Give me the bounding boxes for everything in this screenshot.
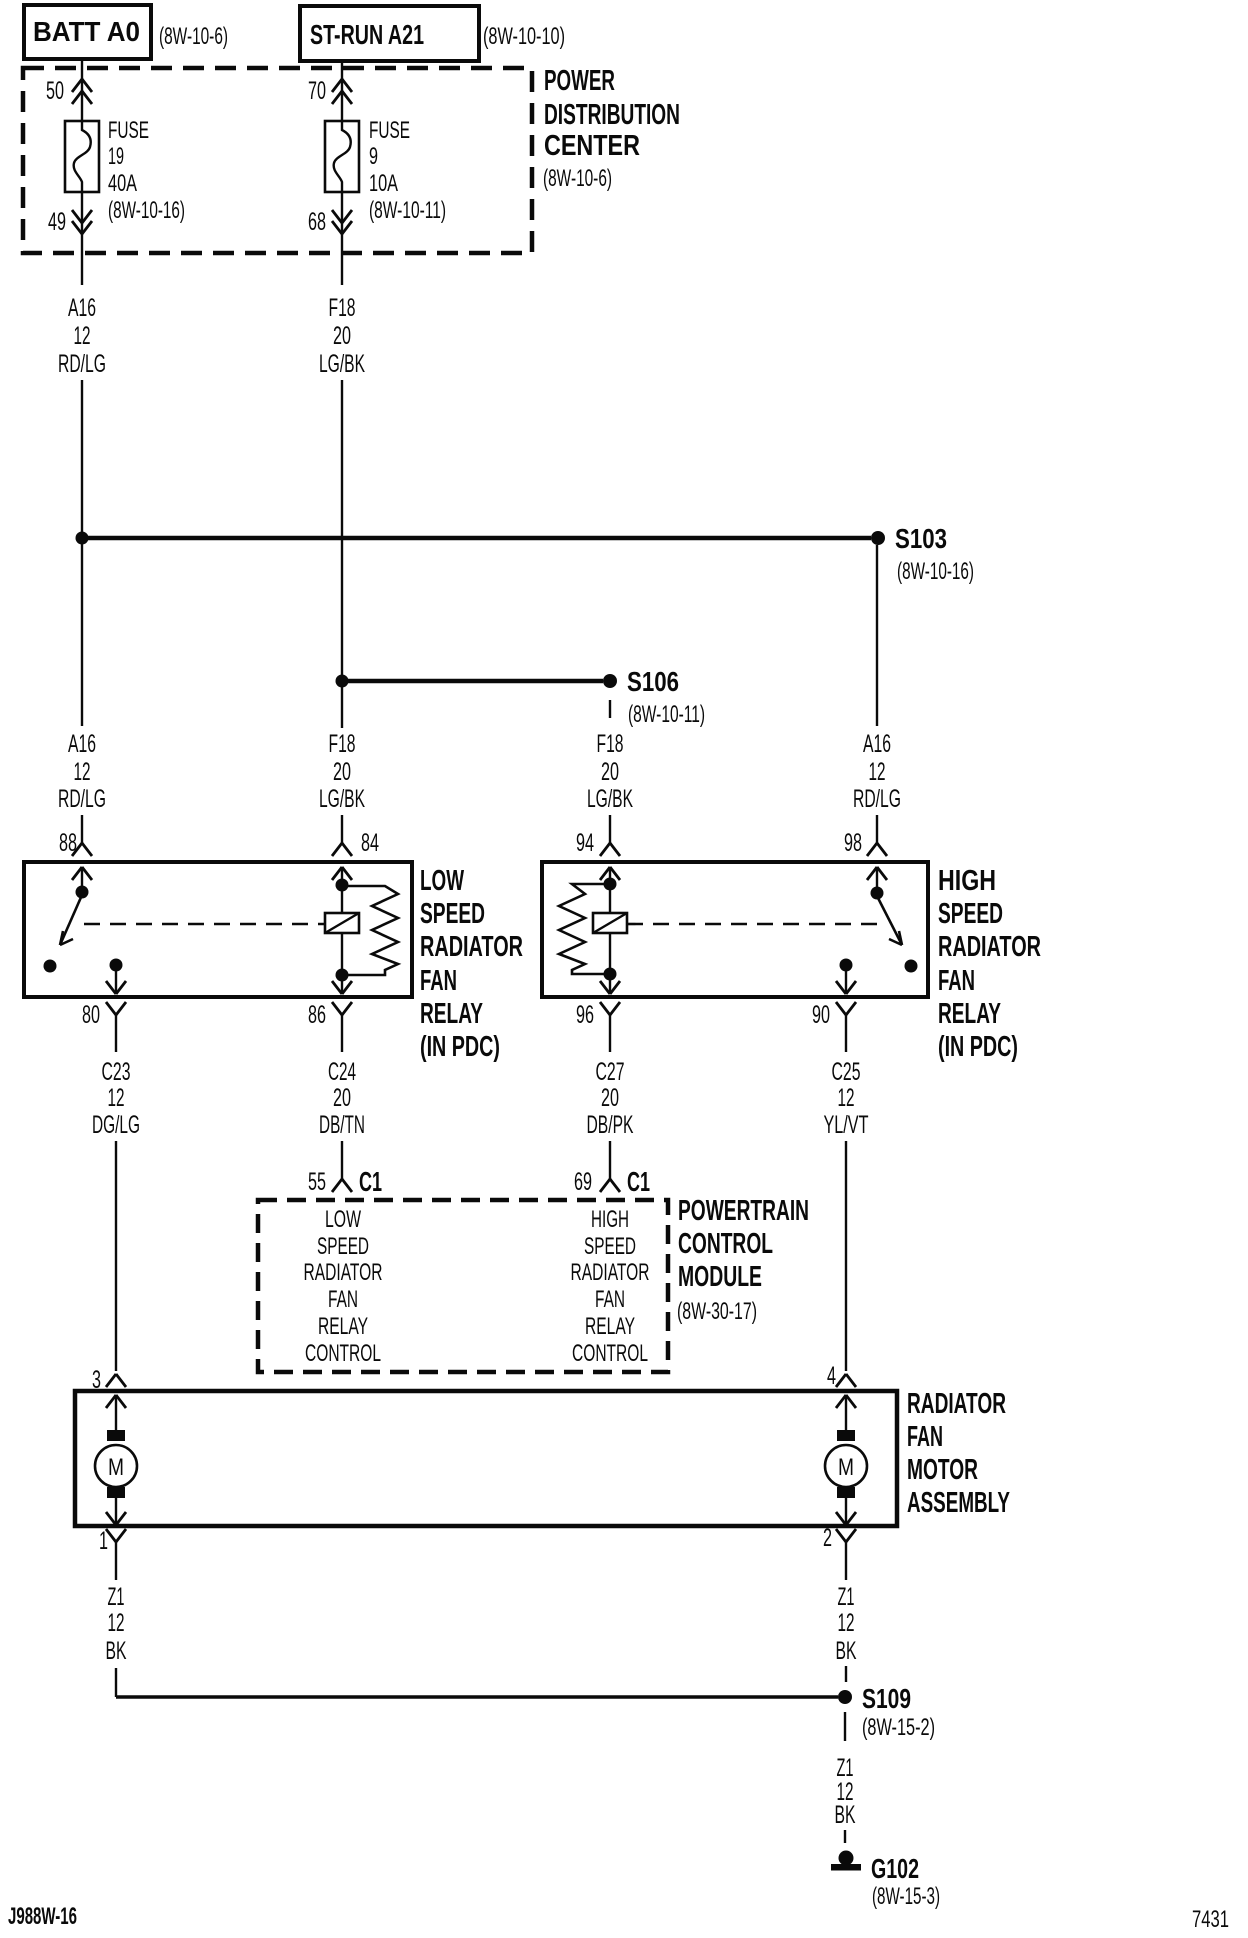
svg-text:RADIATOR: RADIATOR: [571, 1259, 650, 1286]
left fan motor M1: [95, 1430, 137, 1525]
svg-text:A16: A16: [863, 730, 891, 758]
svg-text:40A: 40A: [108, 170, 137, 197]
svg-text:LOW: LOW: [325, 1206, 361, 1233]
svg-text:3: 3: [92, 1366, 101, 1394]
fuse 19 labels: [108, 117, 185, 224]
svg-text:10A: 10A: [369, 170, 398, 197]
low relay resistor: [342, 886, 398, 975]
high relay resistor: [559, 884, 610, 974]
pin 3 connector: [92, 1366, 126, 1430]
svg-text:88: 88: [59, 829, 77, 857]
svg-text:20: 20: [601, 1084, 619, 1112]
svg-text:98: 98: [844, 829, 862, 857]
svg-text:CONTROL: CONTROL: [572, 1340, 648, 1367]
wire label Z1 12 BK left: [106, 1583, 127, 1665]
wire F18 to S106: [341, 380, 343, 681]
svg-text:S106: S106: [627, 666, 679, 697]
wire label A16 12 RD/LG upper: [58, 294, 106, 378]
svg-text:CONTROL: CONTROL: [678, 1228, 773, 1260]
pin 94 connector: [576, 829, 620, 884]
svg-text:F18: F18: [329, 730, 356, 758]
svg-text:96: 96: [576, 1001, 594, 1029]
svg-text:C27: C27: [596, 1058, 625, 1086]
fuse 19 symbol: [65, 121, 99, 192]
wire F18 upper segment: [341, 253, 343, 285]
pin 1 connector: [99, 1527, 126, 1580]
svg-text:50: 50: [46, 77, 64, 105]
svg-text:SPEED: SPEED: [938, 898, 1003, 930]
svg-text:12: 12: [108, 1609, 125, 1637]
wire C23 down to fan pin 3: [115, 1141, 117, 1371]
connector box BATT A0: [24, 5, 151, 59]
svg-text:(8W-10-11): (8W-10-11): [369, 197, 446, 224]
svg-text:C23: C23: [102, 1058, 131, 1086]
svg-text:LG/BK: LG/BK: [319, 785, 365, 813]
svg-text:12: 12: [74, 758, 91, 786]
svg-text:FAN: FAN: [938, 965, 975, 997]
power distribution center dashed box: [23, 68, 532, 253]
reference (8W-10-10) for ST-RUN A21: [483, 23, 565, 50]
svg-text:DISTRIBUTION: DISTRIBUTION: [544, 99, 680, 131]
svg-text:70: 70: [308, 77, 326, 105]
svg-text:DG/LG: DG/LG: [92, 1111, 140, 1139]
splice S106 dot: [603, 674, 617, 688]
low relay control dashed line: [84, 923, 325, 926]
svg-text:FUSE: FUSE: [369, 117, 410, 144]
fuse 9 symbol: [325, 121, 359, 192]
svg-text:M: M: [838, 1454, 854, 1481]
svg-text:20: 20: [333, 322, 351, 350]
pin 69 C1 connector: [574, 1166, 650, 1197]
wire F18 into pin 94: [609, 815, 611, 843]
wire A16 from S103 down: [876, 545, 878, 726]
svg-text:2: 2: [823, 1524, 832, 1552]
connector box ST-RUN A21: [300, 6, 479, 61]
pin 86 connector: [308, 1001, 352, 1052]
ground G102 label: [871, 1853, 940, 1910]
svg-text:RELAY: RELAY: [318, 1313, 368, 1340]
svg-text:12: 12: [869, 758, 886, 786]
wire fuse 9 to PDC border: [341, 192, 343, 253]
svg-text:POWER: POWER: [544, 65, 615, 97]
svg-text:(8W-10-6): (8W-10-6): [159, 23, 228, 50]
svg-text:DB/TN: DB/TN: [319, 1111, 365, 1139]
svg-text:55: 55: [308, 1168, 326, 1196]
svg-text:(8W-10-16): (8W-10-16): [108, 197, 185, 224]
fuse 9 labels: [369, 117, 446, 224]
svg-text:RADIATOR: RADIATOR: [938, 931, 1041, 963]
pin 80 connector: [82, 1001, 126, 1052]
wire A16 lower left segment: [81, 538, 83, 726]
svg-text:LG/BK: LG/BK: [319, 350, 365, 378]
wire A16 into pin 98: [876, 815, 878, 843]
svg-text:RADIATOR: RADIATOR: [907, 1388, 1006, 1420]
wire label F18 20 LG/BK upper: [319, 294, 365, 378]
wire C25 down to fan pin 4: [845, 1141, 847, 1371]
svg-text:FAN: FAN: [328, 1286, 358, 1313]
svg-text:C25: C25: [832, 1058, 861, 1086]
wire Z1 left down segment: [115, 1668, 117, 1697]
svg-text:FUSE: FUSE: [108, 117, 149, 144]
pin 49 double chevron: [48, 208, 92, 236]
pin 98 connector: [844, 829, 887, 889]
pin 55 C1 connector: [308, 1166, 382, 1197]
high relay fixed contact dot: [905, 960, 918, 973]
powertrain control module dashed box: [258, 1200, 668, 1372]
svg-text:CENTER: CENTER: [544, 130, 640, 162]
wire C27 down to PCM pin 69: [609, 1141, 611, 1179]
svg-text:9: 9: [369, 143, 378, 170]
svg-text:ASSEMBLY: ASSEMBLY: [907, 1487, 1010, 1519]
svg-text:FAN: FAN: [595, 1286, 625, 1313]
pin 96 connector: [576, 1001, 620, 1052]
pin 80 contact dot and stem: [106, 959, 126, 995]
svg-text:CONTROL: CONTROL: [305, 1340, 381, 1367]
svg-text:HIGH: HIGH: [591, 1206, 629, 1233]
svg-text:BK: BK: [106, 1637, 127, 1665]
splice S103 bus line: [82, 536, 871, 541]
svg-text:69: 69: [574, 1168, 592, 1196]
svg-text:49: 49: [48, 208, 66, 236]
splice S106 label: [627, 666, 705, 728]
reference (8W-10-6) for BATT A0: [159, 23, 228, 50]
wire label C27 20 DB/PK: [587, 1058, 634, 1139]
svg-text:86: 86: [308, 1001, 326, 1029]
wire label C23 12 DG/LG: [92, 1058, 140, 1139]
svg-text:90: 90: [812, 1001, 830, 1029]
svg-text:S109: S109: [862, 1683, 911, 1714]
low relay fixed contact dot: [44, 960, 57, 973]
high relay control dashed line: [627, 923, 886, 926]
pin 70 double chevron: [308, 77, 352, 105]
low relay switch common dot: [76, 886, 89, 899]
svg-text:SPEED: SPEED: [317, 1233, 369, 1260]
svg-text:LOW: LOW: [420, 865, 464, 897]
svg-text:68: 68: [308, 208, 326, 236]
high speed radiator fan relay box: [542, 862, 928, 997]
low relay coil: [325, 885, 359, 975]
svg-text:A16: A16: [68, 294, 96, 322]
wire stub above ground G102: [844, 1830, 846, 1843]
splice S103 label: [895, 523, 974, 585]
splice S109 dot: [838, 1690, 852, 1704]
svg-text:S103: S103: [895, 523, 947, 554]
svg-text:(8W-10-10): (8W-10-10): [483, 23, 565, 50]
wire label F18 20 LG/BK to pin 84: [319, 730, 365, 813]
svg-text:4: 4: [827, 1362, 836, 1390]
splice S109 label: [862, 1683, 935, 1741]
pin 90 connector: [812, 1001, 856, 1052]
wire Z1 right stub above S109: [845, 1666, 847, 1682]
ground symbol G102: [831, 1851, 861, 1871]
high relay switch common dot: [871, 887, 884, 900]
svg-text:84: 84: [361, 829, 379, 857]
wire C24 down to PCM pin 55: [341, 1141, 343, 1179]
splice S103 dot: [871, 531, 885, 545]
svg-text:POWERTRAIN: POWERTRAIN: [678, 1195, 809, 1227]
svg-text:19: 19: [108, 143, 124, 170]
svg-text:12: 12: [838, 1609, 855, 1637]
svg-text:SPEED: SPEED: [420, 898, 485, 930]
wire stub below S109: [844, 1712, 846, 1741]
wire fuse 19 to PDC border: [81, 192, 83, 253]
pin 96 stem: [600, 974, 620, 994]
wire F18 into pin 84: [341, 815, 343, 843]
pin 90 contact dot and stem: [836, 959, 856, 995]
pin 2 connector: [823, 1524, 856, 1580]
pin 88 connector: [59, 829, 92, 888]
svg-text:20: 20: [333, 1084, 351, 1112]
svg-text:C24: C24: [328, 1058, 356, 1086]
svg-text:BATT A0: BATT A0: [33, 16, 140, 47]
wire label C24 20 DB/TN: [319, 1058, 365, 1139]
svg-text:DB/PK: DB/PK: [587, 1111, 634, 1139]
svg-text:HIGH: HIGH: [938, 865, 996, 897]
high relay coil: [593, 884, 627, 974]
svg-text:Z1: Z1: [108, 1583, 125, 1611]
svg-text:(8W-10-6): (8W-10-6): [543, 165, 612, 192]
svg-text:F18: F18: [597, 730, 624, 758]
wire A16 to S103: [81, 380, 83, 537]
high relay coil bottom dot: [604, 968, 617, 981]
junction dot on wire F18 at S106: [336, 675, 349, 688]
low relay coil bottom dot: [336, 969, 349, 982]
svg-text:M: M: [108, 1454, 124, 1481]
svg-text:MODULE: MODULE: [678, 1261, 762, 1293]
svg-text:(8W-10-11): (8W-10-11): [628, 701, 705, 728]
radiator fan motor assembly label: [907, 1388, 1010, 1519]
svg-text:FAN: FAN: [907, 1421, 943, 1453]
svg-text:(8W-10-16): (8W-10-16): [897, 558, 974, 585]
svg-text:RELAY: RELAY: [585, 1313, 635, 1340]
svg-text:LG/BK: LG/BK: [587, 785, 633, 813]
svg-text:(8W-15-3): (8W-15-3): [872, 1883, 940, 1910]
wire label A16 12 RD/LG to pin 98: [853, 730, 901, 813]
svg-text:RD/LG: RD/LG: [58, 350, 106, 378]
svg-text:12: 12: [74, 322, 91, 350]
svg-text:F18: F18: [329, 294, 356, 322]
svg-text:SPEED: SPEED: [584, 1233, 636, 1260]
svg-text:J988W-16: J988W-16: [8, 1903, 77, 1930]
splice S106 bus line: [342, 679, 603, 684]
pin 68 double chevron: [308, 208, 352, 236]
PCM high speed relay control text: [571, 1206, 650, 1367]
right fan motor M2: [825, 1430, 867, 1525]
radiator fan motor assembly box: [75, 1391, 897, 1526]
svg-text:BK: BK: [836, 1637, 857, 1665]
svg-text:12: 12: [108, 1084, 125, 1112]
svg-text:A16: A16: [68, 730, 96, 758]
svg-text:Z1: Z1: [838, 1583, 855, 1611]
svg-text:(IN PDC): (IN PDC): [938, 1031, 1018, 1063]
svg-text:RADIATOR: RADIATOR: [304, 1259, 383, 1286]
svg-text:(IN PDC): (IN PDC): [420, 1031, 500, 1063]
svg-text:G102: G102: [871, 1853, 919, 1884]
footer sheet number J988W-16: [8, 1903, 77, 1930]
wire label Z1 12 BK to ground: [835, 1754, 856, 1829]
wire label C25 12 YL/VT: [824, 1058, 869, 1139]
svg-text:80: 80: [82, 1001, 100, 1029]
svg-text:MOTOR: MOTOR: [907, 1454, 978, 1486]
wire label A16 12 RD/LG to pin 88: [58, 730, 106, 813]
high relay coil top dot: [604, 878, 617, 891]
high speed radiator fan relay label: [938, 865, 1041, 1063]
svg-text:FAN: FAN: [420, 965, 457, 997]
svg-text:12: 12: [838, 1084, 855, 1112]
svg-text:C1: C1: [359, 1166, 382, 1197]
svg-text:RD/LG: RD/LG: [58, 785, 106, 813]
wire stub below S106 dot: [609, 700, 611, 718]
footer page number 7431: [1192, 1906, 1229, 1933]
svg-text:BK: BK: [835, 1801, 856, 1829]
svg-text:20: 20: [601, 758, 619, 786]
low speed radiator fan relay label: [420, 865, 523, 1063]
svg-text:RADIATOR: RADIATOR: [420, 931, 523, 963]
pin 84 connector: [332, 829, 379, 885]
wire label Z1 12 BK right: [836, 1583, 857, 1665]
junction dot on wire A16 at S103: [76, 532, 89, 545]
svg-text:RELAY: RELAY: [938, 998, 1001, 1030]
wire from BATT A0 into PDC: [81, 59, 83, 121]
svg-text:YL/VT: YL/VT: [824, 1111, 869, 1139]
svg-text:ST-RUN A21: ST-RUN A21: [310, 19, 424, 50]
wire F18 below S106 junction: [341, 681, 343, 728]
svg-text:(8W-30-17): (8W-30-17): [677, 1298, 757, 1325]
svg-text:RD/LG: RD/LG: [853, 785, 901, 813]
svg-text:RELAY: RELAY: [420, 998, 483, 1030]
low relay switch blade: [60, 895, 82, 945]
pin 4 connector: [827, 1362, 856, 1430]
high relay switch blade: [877, 896, 902, 945]
powertrain control module label: [677, 1195, 809, 1325]
power distribution center label: [543, 65, 680, 192]
low relay coil top dot: [336, 879, 349, 892]
wire label F18 20 LG/BK to pin 94: [587, 730, 633, 813]
PCM low speed relay control text: [304, 1206, 383, 1367]
low speed radiator fan relay box: [24, 862, 412, 997]
pin 86 stem: [332, 975, 352, 994]
svg-text:20: 20: [333, 758, 351, 786]
wire A16 upper segment: [81, 253, 83, 285]
pin 50 double chevron: [46, 77, 92, 105]
wire A16 into pin 88: [81, 815, 83, 843]
wire Z1 horizontal ground bus to S109: [116, 1695, 838, 1698]
svg-text:94: 94: [576, 829, 594, 857]
svg-text:C1: C1: [627, 1166, 650, 1197]
wire from ST-RUN A21 into PDC: [341, 61, 343, 121]
svg-text:7431: 7431: [1192, 1906, 1229, 1933]
svg-text:(8W-15-2): (8W-15-2): [862, 1714, 935, 1741]
